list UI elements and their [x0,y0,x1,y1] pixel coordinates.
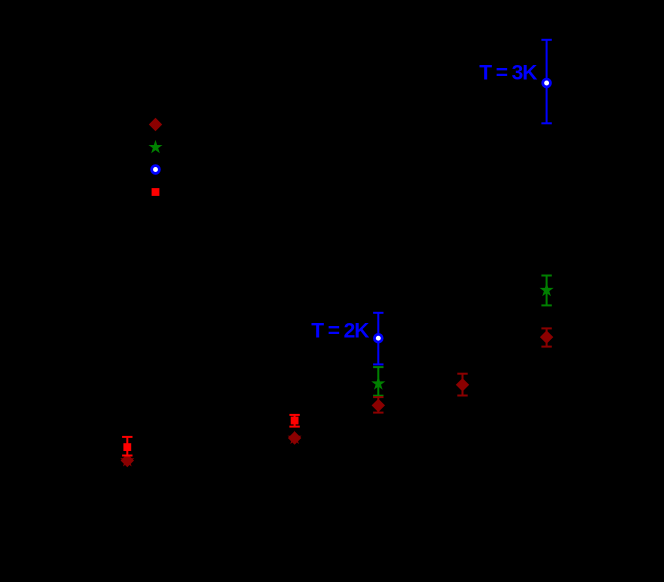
darkred overlapped star+diamond x294 [288,431,302,444]
legend marker: green star [148,140,162,153]
darkred overlapped star+diamond x127 [120,453,134,466]
blue errorbar T=2K [373,313,383,365]
legend marker: blue circle, white face [152,166,160,174]
blue circle marker T=3K [543,79,551,87]
red square errorbar x294 [289,415,299,427]
svg-text:T = 2K: T = 2K [311,320,369,343]
green star errorbar middle [373,367,383,396]
svg-text:T = 3K: T = 3K [479,62,537,85]
legend marker: red square [152,188,160,196]
blue errorbar T=3K [541,40,551,124]
darkred diamond errorbar right [541,328,551,346]
green star errorbar right [541,276,551,306]
blue circle marker T=2K [374,334,382,342]
darkred diamond errorbar x462 [457,374,467,396]
darkred diamond errorbar middle [373,397,383,413]
legend marker: dark-red diamond [149,118,162,131]
red square errorbar x127 [122,437,132,456]
